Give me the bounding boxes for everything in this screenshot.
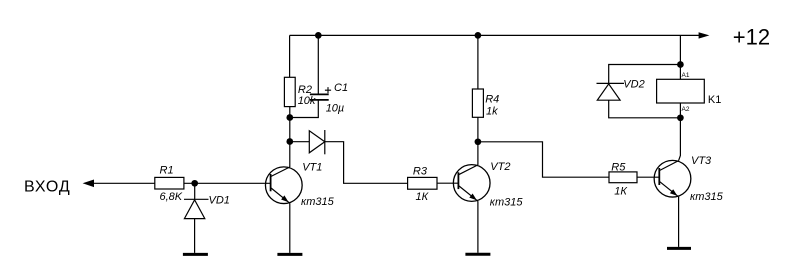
- transistor VT1: [265, 161, 334, 208]
- wire input arrow to R1: [93, 182, 155, 184]
- svg-text:R1: R1: [160, 164, 174, 176]
- wire node down to VD1 cathode: [194, 183, 196, 199]
- node VT2 collector: [475, 138, 482, 145]
- node R4 top on rail: [475, 32, 482, 39]
- wire rail to relay K1 pin A1: [679, 35, 681, 79]
- wire C1 bottom to R2 bottom: [290, 100, 319, 118]
- diode VD3 (coupling diode at VT1 collector): [309, 130, 325, 154]
- diode VD2: [597, 79, 645, 101]
- svg-text:VT3: VT3: [691, 155, 712, 167]
- wire +12 top rail: [290, 34, 700, 36]
- ground VT2: [465, 253, 490, 256]
- ground VT3: [667, 247, 691, 250]
- svg-text:VT1: VT1: [302, 161, 322, 173]
- svg-text:кm315: кm315: [490, 197, 524, 209]
- transistor VT2: [453, 161, 523, 209]
- svg-text:6,8K: 6,8K: [160, 191, 183, 203]
- svg-text:1k: 1k: [486, 106, 498, 118]
- wire relay bottom to node: [679, 103, 681, 118]
- diode VD1: [184, 195, 230, 219]
- wire VT2 collector up to node: [477, 142, 479, 165]
- svg-text:VD2: VD2: [623, 79, 644, 91]
- svg-text:C1: C1: [334, 82, 348, 94]
- capacitor C1: [310, 82, 348, 114]
- wire VT2 collector node to R5: [478, 142, 609, 177]
- node C1 top on rail: [315, 32, 322, 39]
- svg-text:1К: 1К: [614, 186, 627, 198]
- node R2/C1 bottom: [286, 114, 293, 121]
- svg-text:кm315: кm315: [301, 196, 335, 208]
- ground VT1: [277, 253, 302, 256]
- node VD2 top / relay feed: [677, 61, 684, 68]
- wire R4 bottom to VT2 collector node: [477, 117, 479, 142]
- wire VD2 anode to lower node: [609, 100, 681, 118]
- wire VT1 emitter to ground: [289, 203, 291, 253]
- power arrow +12: [699, 32, 710, 38]
- resistor R1: [155, 164, 184, 203]
- wire rail to R4 top: [477, 35, 479, 89]
- node VD2 bottom / relay A2: [677, 114, 684, 121]
- wire VT3 emitter to ground: [678, 197, 680, 247]
- resistor R4: [472, 89, 499, 118]
- ground VD1: [183, 253, 208, 256]
- relay K1: [657, 72, 722, 113]
- svg-text:R3: R3: [413, 166, 428, 178]
- svg-text:ВХОД: ВХОД: [24, 179, 71, 196]
- node R1 / VD1 / VT1 base: [191, 180, 198, 187]
- wire VT1 collector up to node: [289, 142, 291, 168]
- wire R5 to VT3 base: [637, 176, 659, 178]
- wire rail to R2 top: [289, 35, 291, 77]
- svg-text:10µ: 10µ: [326, 102, 345, 114]
- svg-text:+12: +12: [733, 25, 770, 50]
- svg-text:R5: R5: [611, 162, 626, 174]
- wire collector node to diode: [290, 141, 310, 143]
- wire diode cathode to R3: [325, 142, 408, 184]
- wire rail to C1 top: [317, 35, 319, 94]
- wire VT2 emitter to ground: [477, 201, 479, 253]
- svg-text:R4: R4: [485, 94, 499, 106]
- input arrow: [83, 180, 94, 188]
- svg-text:VT2: VT2: [490, 161, 510, 173]
- svg-text:1К: 1К: [416, 191, 429, 203]
- wire node down to VT3 collector: [679, 118, 681, 161]
- resistor R2: [284, 77, 316, 107]
- svg-text:10k: 10k: [298, 95, 316, 107]
- svg-text:K1: K1: [708, 94, 721, 106]
- wire R2 bottom down to VT1 collector node: [289, 107, 291, 142]
- wire VD1 anode to ground: [194, 219, 196, 253]
- svg-text:VD1: VD1: [209, 195, 230, 207]
- svg-text:A2: A2: [682, 106, 690, 113]
- resistor R5: [609, 162, 637, 198]
- resistor R3: [408, 166, 437, 203]
- wire R3 to VT2 base: [437, 182, 458, 184]
- node VT1 collector / diode anode: [286, 138, 293, 145]
- svg-text:A1: A1: [682, 72, 690, 79]
- svg-text:кm315: кm315: [690, 191, 724, 203]
- wire R1 to VT1 base: [184, 182, 271, 184]
- transistor VT3: [654, 155, 723, 203]
- wire node to VD2 cathode: [609, 65, 681, 84]
